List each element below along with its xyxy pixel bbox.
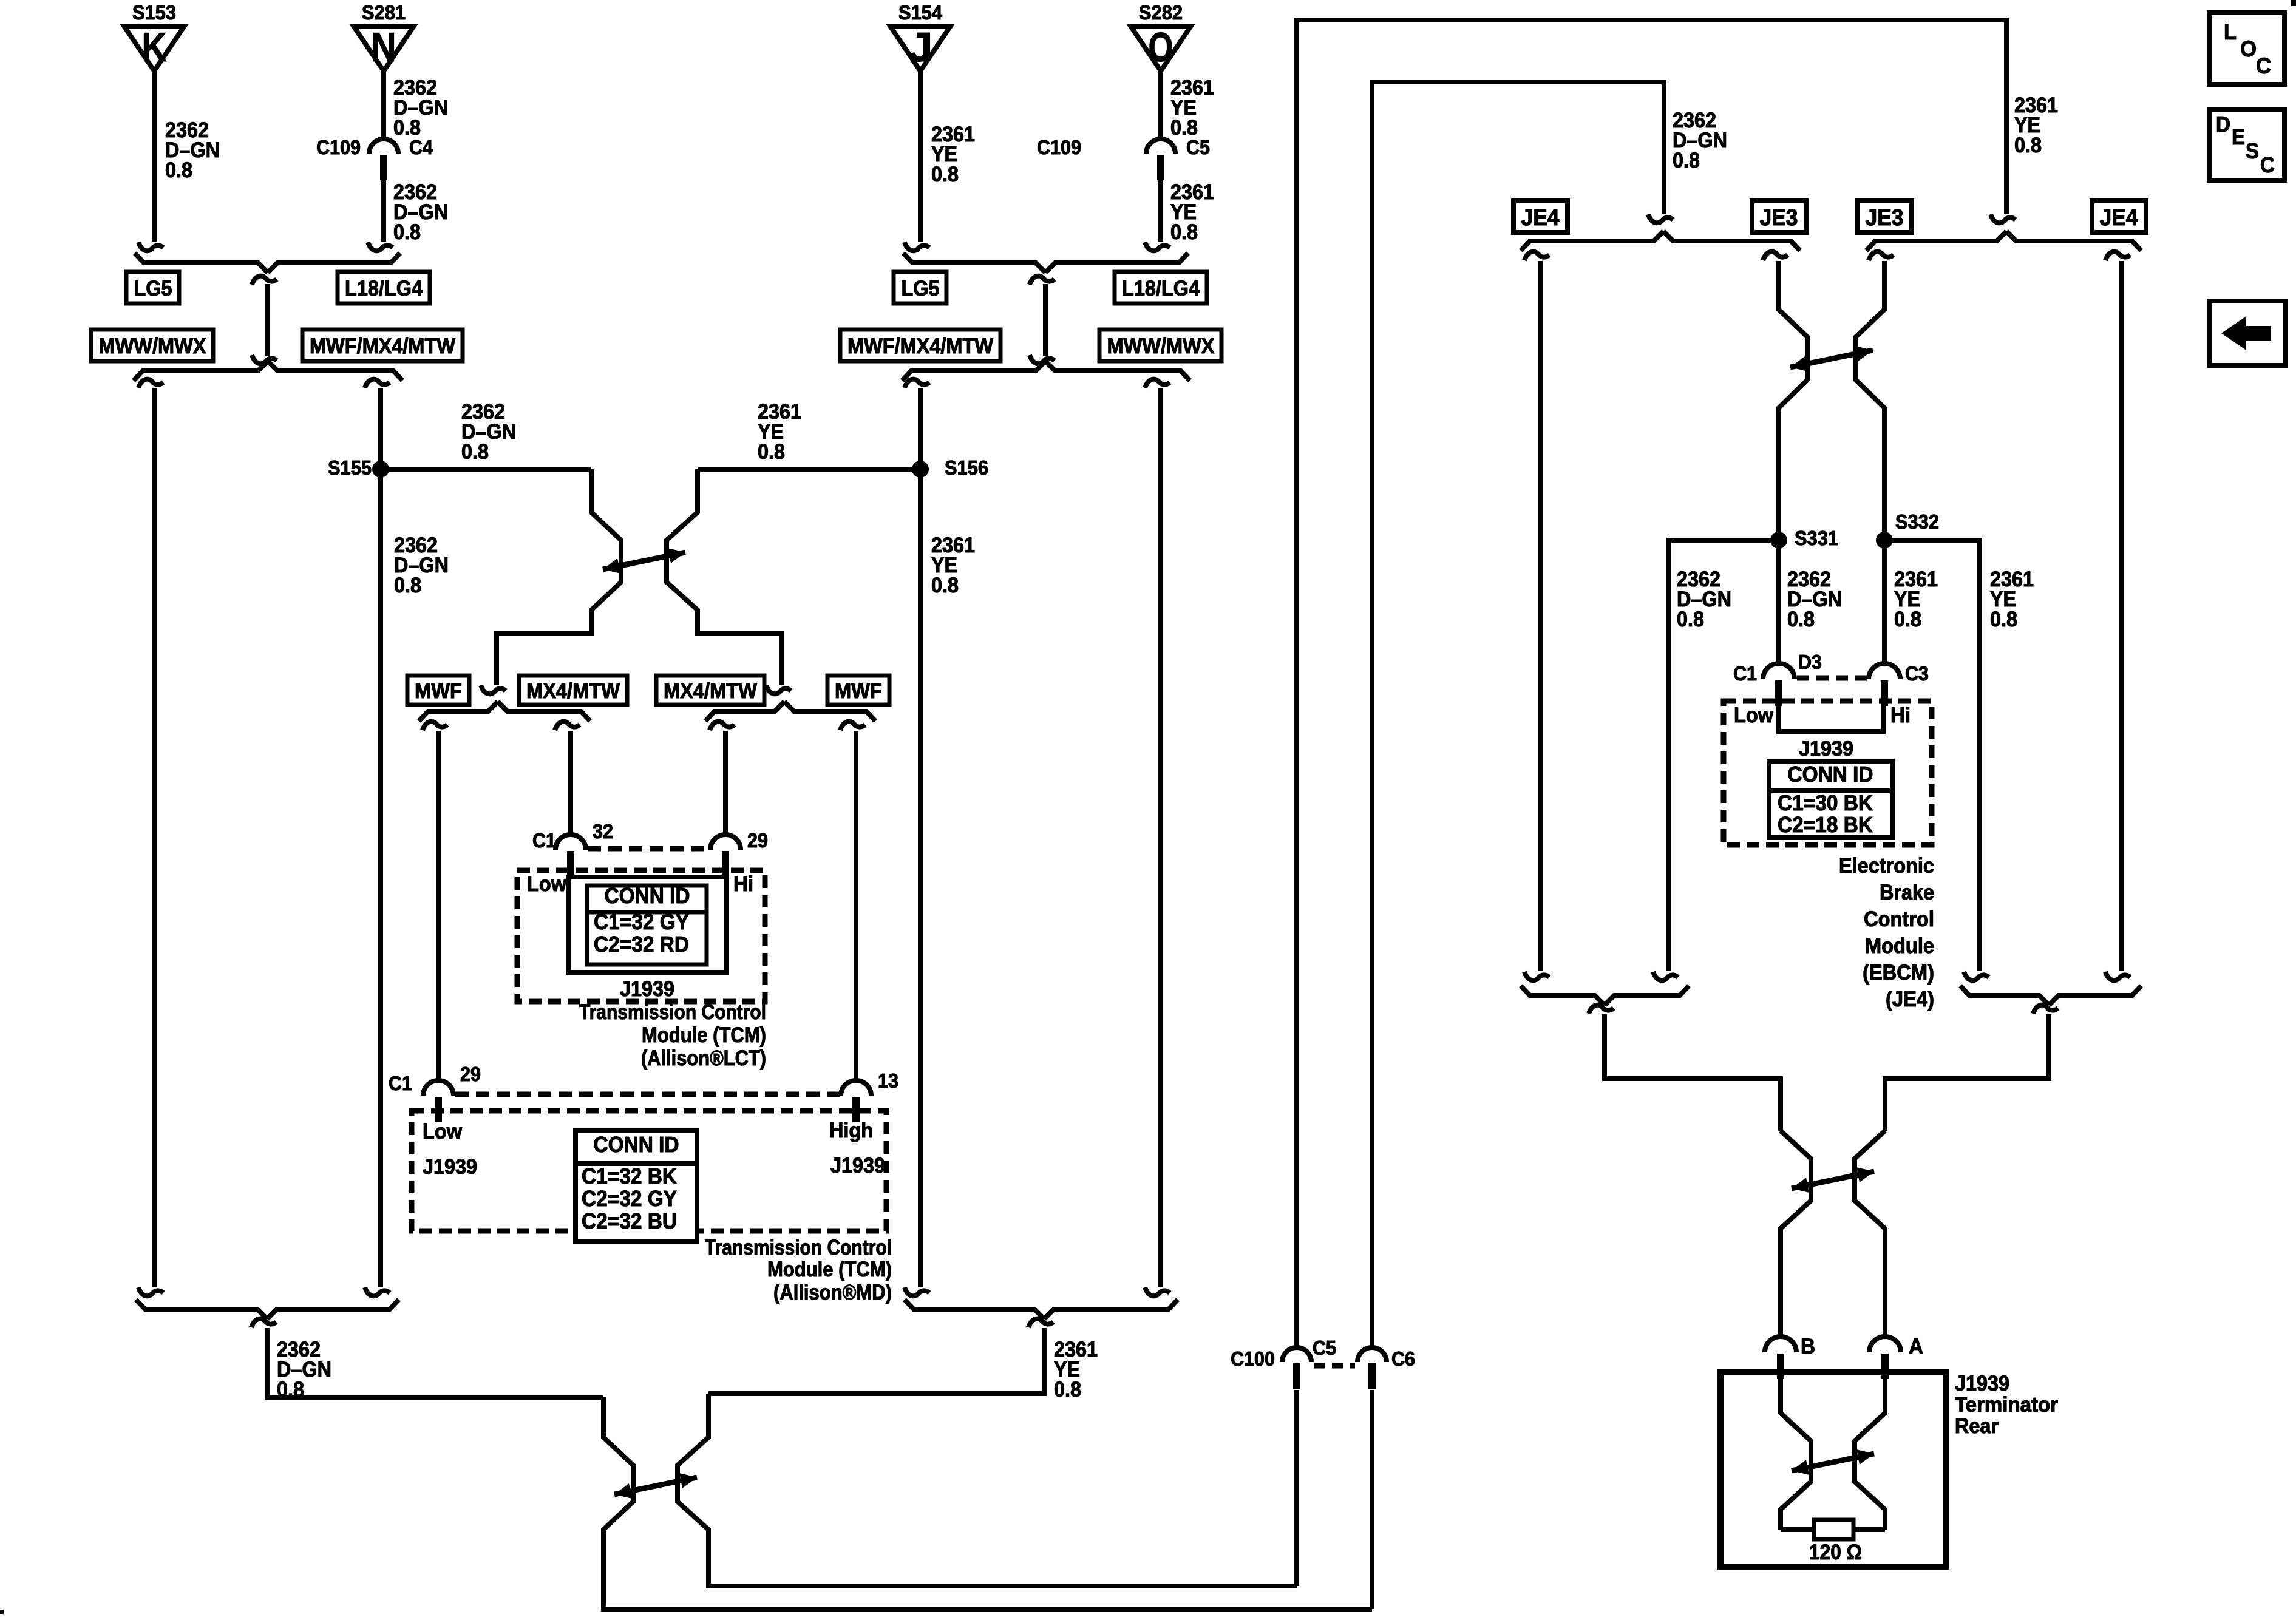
svg-text:Transmission Control: Transmission Control <box>579 1000 766 1024</box>
svg-text:S331: S331 <box>1795 527 1838 549</box>
harness label JE4 <box>2092 201 2146 232</box>
hook to MWF/MX4 brace left <box>481 685 506 694</box>
svg-text:0.8: 0.8 <box>931 574 959 597</box>
splice S331 <box>1770 527 1838 549</box>
label Hi <box>733 872 753 896</box>
svg-text:S156: S156 <box>945 456 988 479</box>
svg-text:Brake: Brake <box>1880 881 1934 904</box>
connector pin 29 TCM LCT <box>710 835 741 876</box>
label High <box>829 1119 873 1142</box>
label 32 <box>593 820 613 842</box>
label J1939 right <box>830 1154 885 1178</box>
svg-text:D: D <box>2216 112 2230 137</box>
CONN ID table TCM LCT <box>587 883 707 964</box>
TCM LCT inner box <box>569 877 726 972</box>
svg-text:C1: C1 <box>1733 662 1757 685</box>
svg-text:0.8: 0.8 <box>394 574 421 597</box>
svg-text:C1=30 BK: C1=30 BK <box>1778 790 1873 815</box>
harness brace bottom J/O <box>905 1300 1178 1319</box>
label J1939 <box>1799 737 1853 761</box>
svg-text:MWF: MWF <box>415 679 462 703</box>
svg-text:J: J <box>908 24 933 70</box>
connector dashed link EBCM <box>1797 676 1867 681</box>
connector pin B <box>1765 1335 1815 1379</box>
svg-text:JE3: JE3 <box>1866 205 1904 231</box>
label C5 <box>1186 136 1210 158</box>
connector triangle S153 K <box>124 1 184 71</box>
svg-text:Low: Low <box>423 1120 463 1144</box>
svg-text:C1=32 GY: C1=32 GY <box>594 909 689 934</box>
svg-text:E: E <box>2232 124 2245 149</box>
bus link between braces <box>252 276 277 364</box>
connector pin 13 TCM MD <box>841 1080 871 1122</box>
svg-text:MX4/MTW: MX4/MTW <box>526 679 620 703</box>
wire label 2361 YE 0.8 <box>1170 76 1214 140</box>
harness label JE3 <box>1752 201 1806 232</box>
svg-text:29: 29 <box>460 1063 481 1085</box>
harness brace JE3/JE4 right <box>1866 231 2141 251</box>
svg-text:S155: S155 <box>328 456 372 479</box>
svg-text:C2=32 BU: C2=32 BU <box>582 1208 677 1233</box>
harness brace bottom K/N <box>136 1300 399 1319</box>
label C1 <box>1733 662 1757 685</box>
connector C1 pin 29 TCM MD <box>423 1080 453 1122</box>
connector triangle S154 J <box>891 1 950 71</box>
svg-text:C2=32 GY: C2=32 GY <box>582 1186 677 1211</box>
wire label 2361 YE 0.8 <box>1990 568 2034 631</box>
wire up to C100 C6 <box>1370 1390 1374 1609</box>
inline connector C100 pin C5 <box>1282 1347 1311 1389</box>
wire S331 branch left <box>1653 540 1779 980</box>
svg-text:0.8: 0.8 <box>1673 149 1700 172</box>
wire JE4 right bus <box>2105 252 2130 981</box>
svg-text:S154: S154 <box>898 1 943 24</box>
svg-text:C: C <box>2260 152 2275 177</box>
wire S156 to twisted pair <box>698 467 920 472</box>
wire label 2361 YE 0.8 below S156 <box>931 534 975 597</box>
label Low <box>1734 703 1774 727</box>
svg-text:S281: S281 <box>362 1 406 24</box>
wire 2361 YE rear run <box>1297 20 2016 1347</box>
wire label 2362 D-GN 0.8 <box>393 180 448 244</box>
harness label MWF <box>827 676 889 705</box>
label C109 <box>316 136 361 158</box>
harness label L18/LG4 <box>338 272 430 303</box>
connector pin C3 EBCM <box>1869 663 1900 706</box>
svg-text:C2=32 RD: C2=32 RD <box>594 932 689 957</box>
wire label 2361 YE 0.8 <box>931 123 975 186</box>
svg-text:N: N <box>372 24 396 70</box>
svg-text:0.8: 0.8 <box>277 1378 304 1401</box>
corner mark <box>2291 0 2296 6</box>
wire label 2361 YE 0.8 <box>1170 180 1214 244</box>
svg-text:JE4: JE4 <box>2100 205 2138 231</box>
EBCM module dashed box <box>1724 701 1932 845</box>
connector pin A <box>1869 1335 1923 1379</box>
wire MWW/MWX bus right <box>1145 379 1170 1296</box>
connector dashed link <box>588 846 709 852</box>
wire label 2362 D-GN 0.8 <box>1673 109 1727 172</box>
wire rear bus A <box>1885 1005 2058 1131</box>
wire 2361 YE from C109 lower <box>1145 180 1170 251</box>
svg-text:D3: D3 <box>1798 651 1822 673</box>
wire JE3 left bus with crossover <box>1763 252 1808 663</box>
svg-text:0.8: 0.8 <box>1894 608 1921 631</box>
wire JE3 right bus with crossover <box>1855 252 1894 663</box>
connector dashed link <box>455 1092 840 1097</box>
svg-text:CONN ID: CONN ID <box>605 883 690 908</box>
wire rear bus B <box>1589 1005 1781 1131</box>
svg-text:JE3: JE3 <box>1760 205 1798 231</box>
svg-text:0.8: 0.8 <box>1787 608 1815 631</box>
wire 2362 D-GN from S153 <box>138 71 163 251</box>
svg-text:JE4: JE4 <box>1521 205 1560 231</box>
harness label JE3 <box>1858 201 1912 232</box>
svg-text:C6: C6 <box>1391 1347 1415 1370</box>
EBCM module name <box>1839 854 1934 1011</box>
connector triangle S281 N <box>354 1 413 71</box>
label 29 <box>460 1063 481 1085</box>
svg-text:0.8: 0.8 <box>2014 134 2042 157</box>
label D3 <box>1798 651 1822 673</box>
label J1939 Terminator Rear <box>1955 1372 2058 1438</box>
svg-text:MWF: MWF <box>835 679 882 703</box>
svg-text:L18/LG4: L18/LG4 <box>345 277 423 300</box>
svg-text:CONN ID: CONN ID <box>1788 762 1873 787</box>
label C1 <box>532 829 556 852</box>
svg-text:K: K <box>142 24 167 70</box>
svg-text:0.8: 0.8 <box>758 440 785 464</box>
wire label 2362 D-GN 0.8 <box>1787 568 1842 631</box>
svg-text:0.8: 0.8 <box>1677 608 1704 631</box>
svg-text:S332: S332 <box>1895 510 1939 533</box>
TCM MD module name <box>705 1236 892 1304</box>
svg-text:Hi: Hi <box>1890 703 1911 727</box>
svg-text:0.8: 0.8 <box>1990 608 2017 631</box>
svg-text:Transmission Control: Transmission Control <box>705 1236 892 1259</box>
svg-text:J1939: J1939 <box>1955 1372 2009 1395</box>
wire JE4 left bus <box>1524 252 1549 981</box>
wire 2362 D-GN to rear bus <box>251 1319 603 1397</box>
connector C1 pin 32 TCM LCT <box>555 835 586 876</box>
harness label MX4/MTW <box>656 676 764 705</box>
svg-text:J1939: J1939 <box>620 977 674 1001</box>
twisted pair arrow JE3 <box>1790 346 1873 371</box>
svg-text:C: C <box>2256 53 2271 78</box>
svg-text:Hi: Hi <box>733 872 753 896</box>
wire label 2361 YE 0.8 <box>2014 93 2058 157</box>
svg-text:C100: C100 <box>1231 1347 1275 1370</box>
wire 2361 YE from S282 upper <box>1158 71 1163 139</box>
svg-text:Module (TCM): Module (TCM) <box>642 1023 766 1047</box>
svg-text:0.8: 0.8 <box>931 163 959 186</box>
wire MWF/MX4/MTW bus left <box>365 379 390 1296</box>
svg-text:C1: C1 <box>389 1072 412 1094</box>
svg-text:B: B <box>1801 1335 1815 1358</box>
svg-text:O: O <box>2240 36 2257 61</box>
svg-text:J1939: J1939 <box>830 1154 885 1178</box>
wire to terminator B <box>1778 1229 1783 1337</box>
svg-text:Low: Low <box>527 872 567 896</box>
wire to terminator A <box>1883 1229 1887 1337</box>
svg-text:S: S <box>2246 138 2259 163</box>
terminator internal twisted pair <box>1781 1379 1885 1530</box>
label 120 ohm <box>1809 1540 1862 1564</box>
svg-text:CONN ID: CONN ID <box>594 1132 679 1157</box>
svg-text:13: 13 <box>878 1069 898 1092</box>
svg-text:Electronic: Electronic <box>1839 854 1934 878</box>
wire 2362 D-GN from S281 upper <box>381 71 386 139</box>
splice S155 <box>328 456 389 479</box>
wire label 2362 D-GN 0.8 <box>1677 568 1731 631</box>
wire label 2362 D-GN 0.8 <box>393 76 448 140</box>
svg-text:Terminator: Terminator <box>1955 1393 2058 1417</box>
wire S332 branch right <box>1884 540 1989 980</box>
splice S332 <box>1876 510 1939 549</box>
harness brace lower K/N <box>134 361 402 381</box>
wire label 2361 YE 0.8 <box>1054 1338 1098 1401</box>
svg-text:120 Ω: 120 Ω <box>1809 1540 1862 1564</box>
harness brace EBCM right <box>1960 986 2141 1005</box>
svg-text:J1939: J1939 <box>1799 737 1853 761</box>
svg-text:Rear: Rear <box>1955 1414 1999 1438</box>
connector dashed link C100 <box>1314 1363 1355 1369</box>
label Low <box>423 1120 463 1144</box>
wire 2362 D-GN from C109 lower <box>368 180 393 251</box>
CONN ID table TCM MD <box>576 1130 697 1242</box>
svg-text:MWF/MX4/MTW: MWF/MX4/MTW <box>847 334 993 358</box>
splice S156 <box>912 456 988 479</box>
wire TCM LCT high <box>710 722 735 834</box>
label C5 <box>1313 1337 1336 1359</box>
svg-text:(Allison®MD): (Allison®MD) <box>773 1281 892 1304</box>
svg-text:High: High <box>829 1119 873 1142</box>
label Hi <box>1890 703 1911 727</box>
svg-text:0.8: 0.8 <box>165 158 192 182</box>
svg-text:C109: C109 <box>1037 136 1081 158</box>
label C1 <box>389 1072 412 1094</box>
legend box DESC <box>2209 109 2284 180</box>
inline connector C109 pin C4 <box>369 139 398 180</box>
harness label LG5 <box>894 272 946 303</box>
svg-text:S282: S282 <box>1139 1 1183 24</box>
label 29 <box>747 829 768 852</box>
svg-text:C4: C4 <box>409 136 433 158</box>
legend arrow box <box>2209 301 2285 365</box>
svg-text:(EBCM): (EBCM) <box>1863 961 1934 985</box>
harness brace MX4/MWF right <box>705 702 875 721</box>
TCM LCT module name <box>579 1000 766 1070</box>
corner mark <box>0 1610 4 1614</box>
label C4 <box>409 136 433 158</box>
harness label MX4/MTW <box>519 676 627 705</box>
wire 2361 YE to rear bus <box>708 1319 1053 1394</box>
svg-text:Low: Low <box>1734 703 1774 727</box>
wire 2362 D-GN rear run <box>1372 82 1673 1347</box>
harness label JE4 <box>1513 201 1567 232</box>
wire label 2362 D-GN 0.8 <box>165 118 220 182</box>
wire 2361 YE from S154 <box>905 71 929 251</box>
svg-text:C109: C109 <box>316 136 361 158</box>
svg-text:Module (TCM): Module (TCM) <box>767 1258 892 1281</box>
svg-text:MX4/MTW: MX4/MTW <box>664 679 757 703</box>
svg-text:(JE4): (JE4) <box>1886 988 1934 1011</box>
harness label MWF/MX4/MTW <box>302 330 463 361</box>
resistor 120 ohm <box>1781 1520 1885 1539</box>
twisted pair crossover bottom <box>603 1394 1372 1609</box>
wire label 2362 D-GN 0.8 below S155 <box>394 534 449 597</box>
wire MWF/MX4/MTW bus right <box>905 379 929 1296</box>
svg-text:LG5: LG5 <box>902 277 940 300</box>
svg-text:32: 32 <box>593 820 613 842</box>
bus link between braces <box>1030 276 1055 364</box>
harness brace J/O <box>903 253 1188 273</box>
inline connector C109 pin C5 <box>1146 139 1175 180</box>
connector C1 pin D3 EBCM <box>1763 663 1795 706</box>
wire label 2361 YE 0.8 above S156 branch <box>758 400 801 464</box>
wire S155 to twisted pair <box>381 467 591 472</box>
wire label 2362 D-GN 0.8 above S155 branch <box>461 400 516 464</box>
svg-text:C5: C5 <box>1186 136 1210 158</box>
svg-text:LG5: LG5 <box>134 277 172 300</box>
harness brace JE4/JE3 left <box>1521 231 1800 251</box>
svg-text:Module: Module <box>1865 934 1934 958</box>
wire MWW/MWX bus left <box>138 379 163 1296</box>
twisted pair crossover rear <box>1781 1131 1885 1270</box>
harness brace lower J/O <box>902 361 1190 381</box>
svg-text:J1939: J1939 <box>423 1155 477 1179</box>
svg-text:L18/LG4: L18/LG4 <box>1122 277 1200 300</box>
svg-text:Control: Control <box>1864 907 1934 931</box>
TCM MD module dashed box <box>412 1111 886 1231</box>
svg-text:L: L <box>2224 19 2237 44</box>
label C109 <box>1037 136 1081 158</box>
wire label 2361 YE 0.8 <box>1894 568 1938 631</box>
label J1939 <box>620 977 674 1001</box>
wire label 2362 D-GN 0.8 <box>277 1338 331 1401</box>
svg-text:0.8: 0.8 <box>1170 220 1198 244</box>
svg-text:C1: C1 <box>532 829 556 852</box>
svg-text:0.8: 0.8 <box>461 440 489 464</box>
harness label L18/LG4 <box>1115 272 1207 303</box>
svg-text:C5: C5 <box>1313 1337 1336 1359</box>
harness label MWF/MX4/MTW <box>840 330 1000 361</box>
svg-text:A: A <box>1909 1335 1923 1358</box>
label C100 <box>1231 1347 1275 1370</box>
svg-text:MWW/MWX: MWW/MWX <box>99 334 207 358</box>
svg-text:0.8: 0.8 <box>393 220 421 244</box>
harness brace K/N <box>135 253 400 273</box>
harness label LG5 <box>126 272 179 303</box>
connector triangle S282 O <box>1131 1 1190 71</box>
wire TCM MD low <box>423 722 447 1080</box>
J1939 Terminator Rear box <box>1720 1372 1946 1567</box>
svg-text:C2=18 BK: C2=18 BK <box>1778 812 1873 837</box>
svg-text:MWW/MWX: MWW/MWX <box>1107 334 1215 358</box>
svg-text:C3: C3 <box>1905 662 1929 685</box>
svg-text:S153: S153 <box>132 1 176 24</box>
wire TCM LCT low <box>555 722 580 834</box>
label 13 <box>878 1069 898 1092</box>
label C6 <box>1391 1347 1415 1370</box>
legend box LOC <box>2209 13 2284 84</box>
harness label MWF <box>407 676 469 705</box>
label C3 <box>1905 662 1929 685</box>
wire up to C100 C5 <box>1294 1390 1299 1586</box>
svg-text:O: O <box>1149 24 1173 70</box>
svg-text:29: 29 <box>747 829 768 852</box>
TCM LCT module dashed box <box>517 870 765 1001</box>
EBCM internal link <box>1779 705 1883 731</box>
svg-text:(Allison®LCT): (Allison®LCT) <box>641 1046 766 1070</box>
label J1939 left <box>423 1155 477 1179</box>
svg-text:MWF/MX4/MTW: MWF/MX4/MTW <box>310 334 455 358</box>
wire TCM MD high <box>840 722 865 1080</box>
inline connector C100 pin C6 <box>1357 1347 1387 1389</box>
twisted pair crossover upper <box>497 469 782 685</box>
harness label MWW/MWX <box>91 330 213 361</box>
svg-text:0.8: 0.8 <box>1054 1378 1081 1401</box>
CONN ID table EBCM <box>1769 761 1892 838</box>
hook to MX4/MWF brace right <box>766 685 791 694</box>
harness brace MWF/MX4 left <box>419 702 590 721</box>
label Low <box>527 872 567 896</box>
harness brace EBCM left <box>1521 986 1689 1005</box>
svg-text:C1=32 BK: C1=32 BK <box>582 1164 677 1188</box>
harness label MWW/MWX <box>1099 330 1221 361</box>
